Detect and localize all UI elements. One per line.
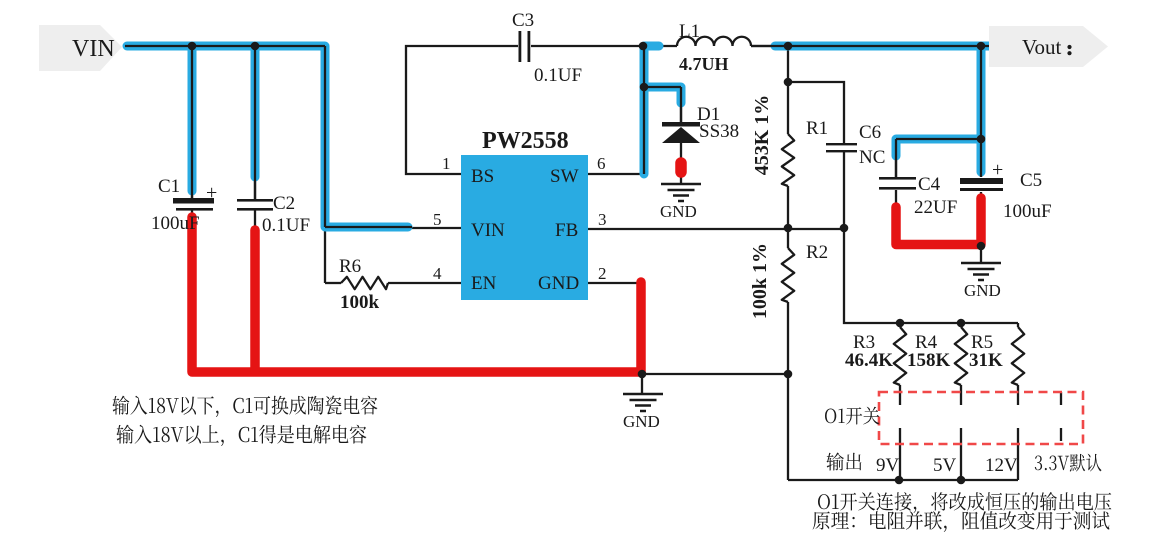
wire SW riser core (643, 46, 645, 174)
capacitor C1 100uF electrolytic (173, 198, 214, 211)
svg-text:C5: C5 (1020, 170, 1042, 191)
wire R4 lower lead / switch contact top (960, 385, 962, 405)
wire R5 switch contact bottom (1017, 428, 1019, 480)
node Vout rail / R1 junction (784, 42, 793, 51)
node ground bus junction (638, 370, 647, 379)
svg-text:12V: 12V (985, 455, 1018, 476)
wire C4 bottom lead (895, 190, 897, 243)
node R2 bottom ground junction (784, 370, 793, 379)
wire to VIN pin 5 (325, 227, 461, 229)
node Vout rail / C5 junction (977, 42, 986, 51)
capacitor C2 0.1UF (237, 199, 273, 211)
node VIN input flag (39, 25, 122, 71)
wire L1 right lead to Vout (751, 45, 991, 47)
svg-text:C1: C1 (158, 176, 180, 197)
text note line1 ceramic cap (112, 396, 377, 417)
wire R3 lower lead / switch contact top (899, 385, 901, 405)
wire bottom bus (788, 479, 1018, 481)
wire C3 to SW node (531, 45, 643, 47)
capacitor C4 22UF (879, 177, 916, 190)
svg-text:4: 4 (433, 264, 442, 283)
wire VIN drop to pin5/EN (324, 46, 326, 283)
svg-text:100k: 100k (340, 292, 380, 313)
wire BS pin 1 to C3 loop (406, 46, 518, 174)
svg-text:GND: GND (623, 412, 660, 431)
svg-text:22UF: 22UF (914, 197, 957, 218)
svg-text:FB: FB (555, 220, 578, 241)
node R3 top junction (896, 319, 905, 328)
svg-text:R2: R2 (806, 242, 828, 263)
wire red C2 riser (250, 230, 260, 370)
svg-text:2: 2 (598, 264, 607, 283)
wire FB pin 3 line (588, 228, 844, 230)
svg-text:R6: R6 (339, 256, 361, 277)
capacitor C3 0.1UF (519, 31, 531, 62)
wire switch leg 4 bottom contact (1060, 428, 1062, 441)
wire R4 switch contact bottom (960, 428, 962, 480)
wire branch to C6 (788, 82, 844, 144)
svg-text:PW2558: PW2558 (482, 128, 569, 154)
svg-text:BS: BS (471, 166, 494, 187)
wire D1 ground stem (680, 174, 682, 183)
wire blue C2 stub (251, 50, 260, 177)
wire ground bus black (642, 373, 788, 375)
wire C1 bottom stub (191, 210, 193, 218)
node R1 / C6 branch junction (784, 78, 793, 87)
svg-text:VIN: VIN (471, 220, 505, 241)
wire C4 branch core (896, 139, 981, 177)
text label output 输出 (826, 453, 861, 471)
svg-text:158K: 158K (907, 350, 951, 371)
svg-text:+: + (992, 159, 1003, 181)
svg-text:GND: GND (538, 273, 579, 294)
svg-text:0.1UF: 0.1UF (262, 215, 310, 236)
wire red C4 C5 loop (896, 198, 981, 245)
svg-text:5: 5 (433, 210, 442, 229)
svg-text:6: 6 (597, 154, 606, 173)
svg-text:EN: EN (471, 273, 497, 294)
svg-text:100uF: 100uF (1003, 201, 1052, 222)
svg-text:R1: R1 (806, 118, 828, 139)
wire C2 bottom stub (254, 210, 256, 373)
wire red ground bus (192, 217, 641, 372)
text note O1 line1 (818, 492, 1111, 513)
svg-text:GND: GND (964, 281, 1001, 300)
wire R4 top lead (960, 323, 962, 327)
inductor L1 4.7UH (677, 37, 751, 46)
svg-text:1: 1 (442, 154, 451, 173)
node SW diode branch junction (640, 83, 649, 92)
svg-text:+: + (206, 182, 217, 204)
wire EN right segment to pin 4 (388, 282, 461, 284)
svg-text:C4: C4 (918, 174, 941, 195)
label Vout colon (1067, 45, 1071, 49)
svg-text:VIN: VIN (72, 36, 115, 62)
wire main GND stem (641, 374, 643, 393)
wire core Vout rail (751, 46, 991, 177)
wire R3 top lead (899, 323, 901, 327)
wire core VIN rail (125, 46, 412, 227)
wire blue SW to diode (646, 87, 681, 103)
text note line2 electrolytic cap (116, 425, 366, 446)
svg-text:C6: C6 (859, 122, 881, 143)
node R3 bottom junction (895, 476, 904, 485)
wire SW pin 6 (588, 173, 644, 175)
wire blue C5 riser (977, 50, 986, 172)
node VIN rail / C1 junction (188, 42, 197, 51)
op-amp U1 PW2558 IC body (461, 155, 588, 300)
capacitor C6 NC (826, 143, 857, 152)
wire C5 riser core (980, 46, 982, 177)
wire R5 top lead (1017, 323, 1019, 327)
wire R5 lower lead / switch contact top (1017, 385, 1019, 405)
svg-text:100k 1%: 100k 1% (749, 243, 771, 319)
wire blue C1 stub (188, 50, 197, 191)
svg-text:C2: C2 (273, 193, 295, 214)
wire red D1 anode pill (675, 163, 687, 172)
ground symbol at D1 (661, 184, 701, 201)
resistor R3 46.4K (894, 327, 906, 385)
wire blue VIN rail (127, 46, 408, 227)
svg-text:3: 3 (598, 210, 607, 229)
node FB / R1-R2 junction (784, 224, 793, 233)
wire R1 bottom lead (787, 186, 789, 248)
ground symbol at C5 (961, 263, 1001, 280)
node R4 bottom junction (957, 476, 966, 485)
node VIN rail / C2 junction (251, 42, 260, 51)
node C5 ground junction (977, 242, 986, 251)
node R4 top junction (957, 319, 966, 328)
svg-text:Vout: Vout (1022, 35, 1061, 59)
wire blue SW riser (644, 46, 659, 174)
svg-text:5V: 5V (933, 455, 957, 476)
text note O1 line2 (813, 511, 1110, 532)
resistor R2 100k (782, 248, 794, 302)
svg-text:SS38: SS38 (699, 121, 739, 142)
wire C6 bottom to R3 bus corner (844, 151, 1018, 323)
svg-text:NC: NC (859, 147, 885, 168)
svg-text:GND: GND (660, 202, 697, 221)
wire SW to diode branch (644, 87, 681, 122)
wire L1 left lead (643, 45, 677, 47)
svg-text:L1: L1 (679, 21, 700, 42)
switch O1 dashed outline (879, 392, 1083, 444)
svg-text:46.4K: 46.4K (845, 350, 893, 371)
text label 3.3V default (1035, 454, 1102, 472)
wire switch leg 4 top contact (1060, 392, 1062, 405)
wire D1 anode lead (680, 143, 682, 161)
wire C2 branch (254, 46, 256, 199)
resistor R4 158K (955, 327, 967, 385)
resistor R6 100k (341, 277, 388, 289)
node Vout output flag (989, 26, 1108, 67)
svg-text:9V: 9V (876, 455, 900, 476)
wire blue Vout rail (775, 42, 991, 51)
wire GND pin 2 (588, 282, 640, 284)
svg-text:0.1UF: 0.1UF (534, 65, 582, 86)
svg-text:100uF: 100uF (151, 213, 200, 234)
wire C5 ground stem (980, 246, 982, 262)
wire VIN top rail (125, 45, 325, 47)
wire R3 switch contact bottom (899, 428, 901, 480)
svg-text:SW: SW (550, 166, 579, 187)
capacitor C5 100uF electrolytic (960, 178, 1003, 191)
text label O1 switch (825, 407, 879, 425)
svg-text:4.7UH: 4.7UH (679, 54, 729, 74)
wire EN left segment (325, 282, 341, 284)
wire R1 top lead (787, 46, 789, 134)
ground symbol main (623, 394, 663, 411)
node FB / C6 junction (840, 224, 849, 233)
svg-text:453K 1%: 453K 1% (751, 95, 773, 176)
wire core C1 C2 stubs (192, 46, 255, 199)
node C4 branch junction (977, 135, 986, 144)
node SW top junction (639, 42, 648, 51)
wire C1 branch (191, 46, 193, 198)
wire R2 bottom lead (787, 302, 789, 480)
diode D1 SS38 (662, 122, 700, 143)
resistor R1 453K (782, 134, 794, 186)
wire C5 bottom lead (980, 192, 982, 246)
svg-text:31K: 31K (969, 350, 1003, 371)
wire blue C4 branch (896, 139, 977, 156)
svg-text:C3: C3 (512, 10, 534, 31)
resistor R5 31K (1012, 327, 1024, 385)
wire core SW riser (644, 46, 681, 174)
